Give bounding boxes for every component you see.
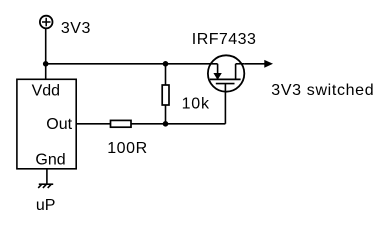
svg-text:100R: 100R <box>107 140 148 157</box>
wire Gnd pin to ground <box>46 169 48 184</box>
svg-text:IRF7433: IRF7433 <box>192 31 257 48</box>
node junction at 10k bottom <box>163 121 169 127</box>
microcontroller U1 uP box <box>17 79 76 169</box>
ground symbol <box>38 184 53 188</box>
wire 10k bottom lead <box>165 105 167 124</box>
wire Out pin to resistor R1 <box>76 123 110 125</box>
wire gate riser to MOSFET <box>224 84 226 124</box>
svg-text:3V3 switched: 3V3 switched <box>271 82 374 99</box>
node junction at 10k top <box>163 61 169 67</box>
svg-text:3V3: 3V3 <box>61 20 91 37</box>
output arrow <box>265 61 272 67</box>
resistor R1 100R body <box>111 120 132 127</box>
wire top bus 3V3 rail <box>46 63 218 65</box>
wire from 3V3 supply down to Vdd pin <box>45 28 47 79</box>
wire 10k top lead <box>165 64 167 85</box>
transistor Q1 IRF7433 P-MOSFET <box>208 55 244 91</box>
svg-text:10k: 10k <box>182 95 210 112</box>
wire drain output <box>244 63 265 65</box>
node junction at Vdd riser <box>43 61 49 67</box>
svg-text:Gnd: Gnd <box>35 152 65 169</box>
wire resistor R1 to gate node <box>131 123 225 125</box>
svg-text:uP: uP <box>36 197 56 214</box>
resistor R2 10k body <box>162 85 169 105</box>
svg-text:Out: Out <box>46 116 72 133</box>
svg-text:Vdd: Vdd <box>32 82 60 99</box>
power symbol 3V3 supply <box>40 16 53 29</box>
